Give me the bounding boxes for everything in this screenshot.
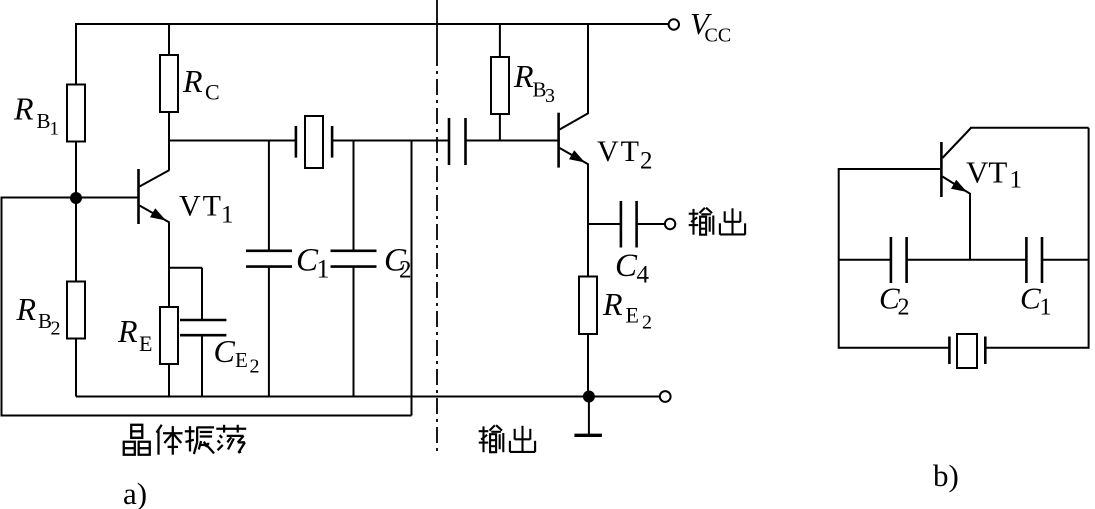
wire RE2 bottom xyxy=(587,334,589,397)
svg-text:b): b) xyxy=(933,458,959,493)
net label VCC xyxy=(690,6,731,47)
label RE2 xyxy=(602,286,652,334)
svg-text:C: C xyxy=(205,80,220,105)
wire b emitter down xyxy=(969,193,971,260)
svg-text:1: 1 xyxy=(221,202,234,229)
resistor RC xyxy=(160,55,178,112)
wire VT2 collector up xyxy=(587,24,589,114)
wire node to box left xyxy=(2,197,77,199)
wire C2 top xyxy=(353,141,355,251)
label RB2 xyxy=(16,291,61,340)
svg-text:R: R xyxy=(182,63,203,99)
resistor RE xyxy=(160,307,178,364)
wire RB1 top xyxy=(75,23,77,85)
wire RB2 bottom xyxy=(75,339,77,397)
wire CE2 drop xyxy=(201,268,203,320)
terminal bottom xyxy=(660,391,671,402)
wire RB3 bottom xyxy=(499,114,501,141)
label VT2 xyxy=(597,135,653,174)
svg-text:VT: VT xyxy=(597,135,641,168)
wire bottom rail xyxy=(76,396,660,398)
crystal X1 body xyxy=(305,116,323,168)
svg-text:2: 2 xyxy=(399,257,412,284)
wire VT1 emitter down xyxy=(168,222,170,307)
wire b mid right xyxy=(1042,259,1089,261)
wire box left edge xyxy=(1,197,3,416)
svg-text:4: 4 xyxy=(637,262,650,289)
crystal X1b plates xyxy=(949,337,985,365)
wire emitter to C4 xyxy=(588,223,621,225)
wire b bottom right xyxy=(985,347,1088,349)
capacitor C2 xyxy=(331,251,377,267)
crystal X1 plates xyxy=(296,126,332,158)
wire CE2 bottom xyxy=(201,335,203,396)
label RB1 xyxy=(13,91,59,140)
wire b mid middle xyxy=(907,259,1027,261)
capacitor C1 xyxy=(246,251,292,267)
svg-text:1: 1 xyxy=(1010,167,1023,194)
svg-text:3: 3 xyxy=(545,85,555,107)
svg-text:R: R xyxy=(13,91,34,127)
wire coupling cap to VT2 base xyxy=(466,140,559,142)
wire b base xyxy=(839,168,941,170)
label output (Chinese) right xyxy=(689,208,745,235)
transistor VT1 base bar xyxy=(137,169,140,224)
svg-text:E: E xyxy=(626,303,639,328)
svg-text:VT: VT xyxy=(179,190,223,223)
svg-text:1: 1 xyxy=(1040,295,1052,321)
label crystal-oscillator stage (Chinese) xyxy=(124,425,246,455)
capacitor C1b xyxy=(1026,237,1042,283)
wire VCC top rail xyxy=(76,23,669,25)
resistor RB1 xyxy=(67,85,85,142)
label subfigure a) xyxy=(123,476,147,509)
wire RC top xyxy=(168,23,170,55)
svg-text:VT: VT xyxy=(966,154,1007,189)
svg-text:R: R xyxy=(117,313,138,349)
transistor VT1 emitter diagonal xyxy=(140,206,170,223)
ground xyxy=(574,397,602,436)
wire RB3 top xyxy=(499,23,501,57)
svg-text:2: 2 xyxy=(51,318,61,340)
resistor RB2 xyxy=(67,282,85,339)
label VT1 xyxy=(179,190,234,229)
terminal VCC xyxy=(669,19,679,29)
svg-text:1: 1 xyxy=(50,119,60,140)
wire RC to collector junction xyxy=(168,112,170,170)
wire node to RB2 xyxy=(75,198,77,282)
wire b bottom left xyxy=(839,347,950,349)
crystal X1b body xyxy=(957,334,977,368)
label subfigure b) xyxy=(933,458,959,493)
capacitor C2b xyxy=(891,237,907,283)
wire crystal to coupling cap xyxy=(332,140,449,142)
label C2 xyxy=(384,243,412,284)
capacitor C4 xyxy=(621,201,637,248)
resistor RE2 xyxy=(579,277,597,335)
wire VT1 base xyxy=(76,197,138,199)
wire b left edge xyxy=(838,168,840,349)
transistor VT2 collector diagonal xyxy=(560,113,589,130)
svg-text:E: E xyxy=(139,331,152,356)
label RC xyxy=(182,63,220,105)
wire RE bottom xyxy=(168,364,170,397)
label C2b xyxy=(879,281,910,321)
label C1b xyxy=(1020,281,1052,321)
transistor VT1b emitter diagonal xyxy=(942,177,970,195)
wire C1 top xyxy=(268,141,270,251)
svg-text:C: C xyxy=(615,248,638,284)
svg-text:R: R xyxy=(513,58,534,94)
label CE2 xyxy=(214,333,260,378)
transistor VT1 collector diagonal xyxy=(140,170,170,187)
capacitor CE2 xyxy=(180,320,226,335)
wire box bottom edge xyxy=(1,415,412,417)
transistor VT1b collector diagonal xyxy=(942,128,971,158)
capacitor coupling xyxy=(449,118,466,165)
wire C4 to output terminal xyxy=(637,223,665,225)
label RB3 xyxy=(513,58,555,107)
svg-text:B: B xyxy=(37,109,51,133)
resistor RB3 xyxy=(491,57,509,114)
wire C2 bottom xyxy=(353,267,355,397)
svg-text:C: C xyxy=(214,333,236,369)
label VT1b xyxy=(966,154,1022,193)
label output stage (Chinese) xyxy=(479,425,535,452)
svg-text:2: 2 xyxy=(640,147,653,174)
wire C1 bottom xyxy=(268,267,270,397)
wire b top xyxy=(970,127,1089,129)
wire VT2 emitter down xyxy=(587,164,589,277)
wire b right edge xyxy=(1088,128,1090,349)
node emitter ground junction xyxy=(583,391,595,403)
svg-text:R: R xyxy=(602,286,623,322)
transistor VT1b base bar xyxy=(940,142,943,197)
wire collector to crystal xyxy=(169,140,296,142)
stage divider dash-dot line xyxy=(436,0,438,454)
transistor VT2 emitter diagonal xyxy=(560,148,589,165)
label RE xyxy=(117,313,152,356)
svg-text:C: C xyxy=(1020,281,1041,316)
node base divider junction xyxy=(70,192,82,204)
wire emitter to CE2 jog xyxy=(168,267,202,269)
label C4 xyxy=(615,248,650,289)
svg-text:1: 1 xyxy=(317,255,330,284)
svg-text:a): a) xyxy=(123,476,147,509)
svg-text:2: 2 xyxy=(898,295,910,321)
terminal output xyxy=(665,219,675,229)
svg-text:CC: CC xyxy=(705,25,732,47)
svg-text:E: E xyxy=(235,348,248,372)
svg-text:R: R xyxy=(16,291,37,327)
transistor VT2 base bar xyxy=(557,113,560,168)
svg-text:2: 2 xyxy=(250,356,260,378)
wire RB1 bottom to node xyxy=(75,142,77,199)
wire b mid left xyxy=(839,259,891,261)
svg-text:2: 2 xyxy=(642,312,652,334)
wire box right edge xyxy=(411,141,413,416)
label C1 xyxy=(296,243,330,284)
